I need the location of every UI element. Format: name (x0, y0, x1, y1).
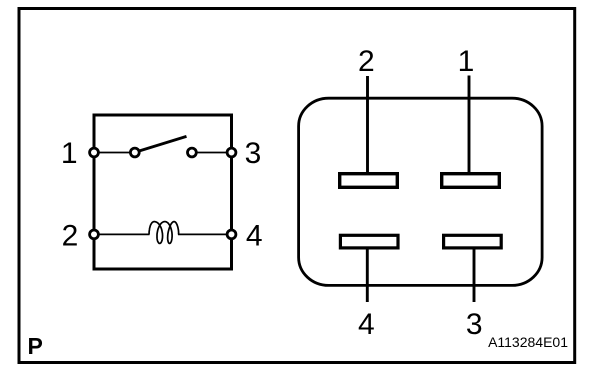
svg-text:2: 2 (62, 220, 79, 253)
switch contact circle left (130, 148, 139, 157)
connector body outline (299, 98, 542, 285)
pin 1 terminal circle (90, 148, 99, 157)
pin 2 terminal circle (90, 230, 99, 239)
switch blade (140, 136, 187, 151)
switch contact circle right (188, 148, 197, 157)
wire switch contact to pin3 (196, 152, 229, 154)
svg-text:4: 4 (358, 308, 375, 341)
terminal 1 lead (468, 76, 471, 173)
coil winding (149, 222, 179, 244)
terminal 2 pad (340, 174, 398, 188)
terminal 3 pad (444, 235, 502, 248)
pin 3 terminal circle (227, 148, 236, 157)
relay box outline (94, 115, 232, 269)
terminal 2 lead (366, 76, 369, 172)
pin 4 terminal circle (227, 230, 236, 239)
terminal 1 pad (442, 174, 500, 188)
wire pin1 to switch contact (97, 152, 131, 154)
svg-text:4: 4 (246, 220, 263, 253)
svg-text:1: 1 (61, 137, 78, 170)
wire coil to pin4 (178, 233, 229, 235)
svg-text:2: 2 (358, 45, 375, 78)
svg-text:P: P (28, 333, 43, 359)
terminal 3 lead (473, 248, 476, 302)
svg-text:3: 3 (245, 137, 262, 170)
svg-text:3: 3 (466, 308, 483, 341)
wire pin2 to coil (97, 233, 150, 235)
svg-text:A113284E01: A113284E01 (488, 334, 568, 350)
terminal 4 pad (340, 235, 398, 248)
terminal 4 lead (366, 248, 369, 302)
svg-text:1: 1 (458, 45, 475, 78)
